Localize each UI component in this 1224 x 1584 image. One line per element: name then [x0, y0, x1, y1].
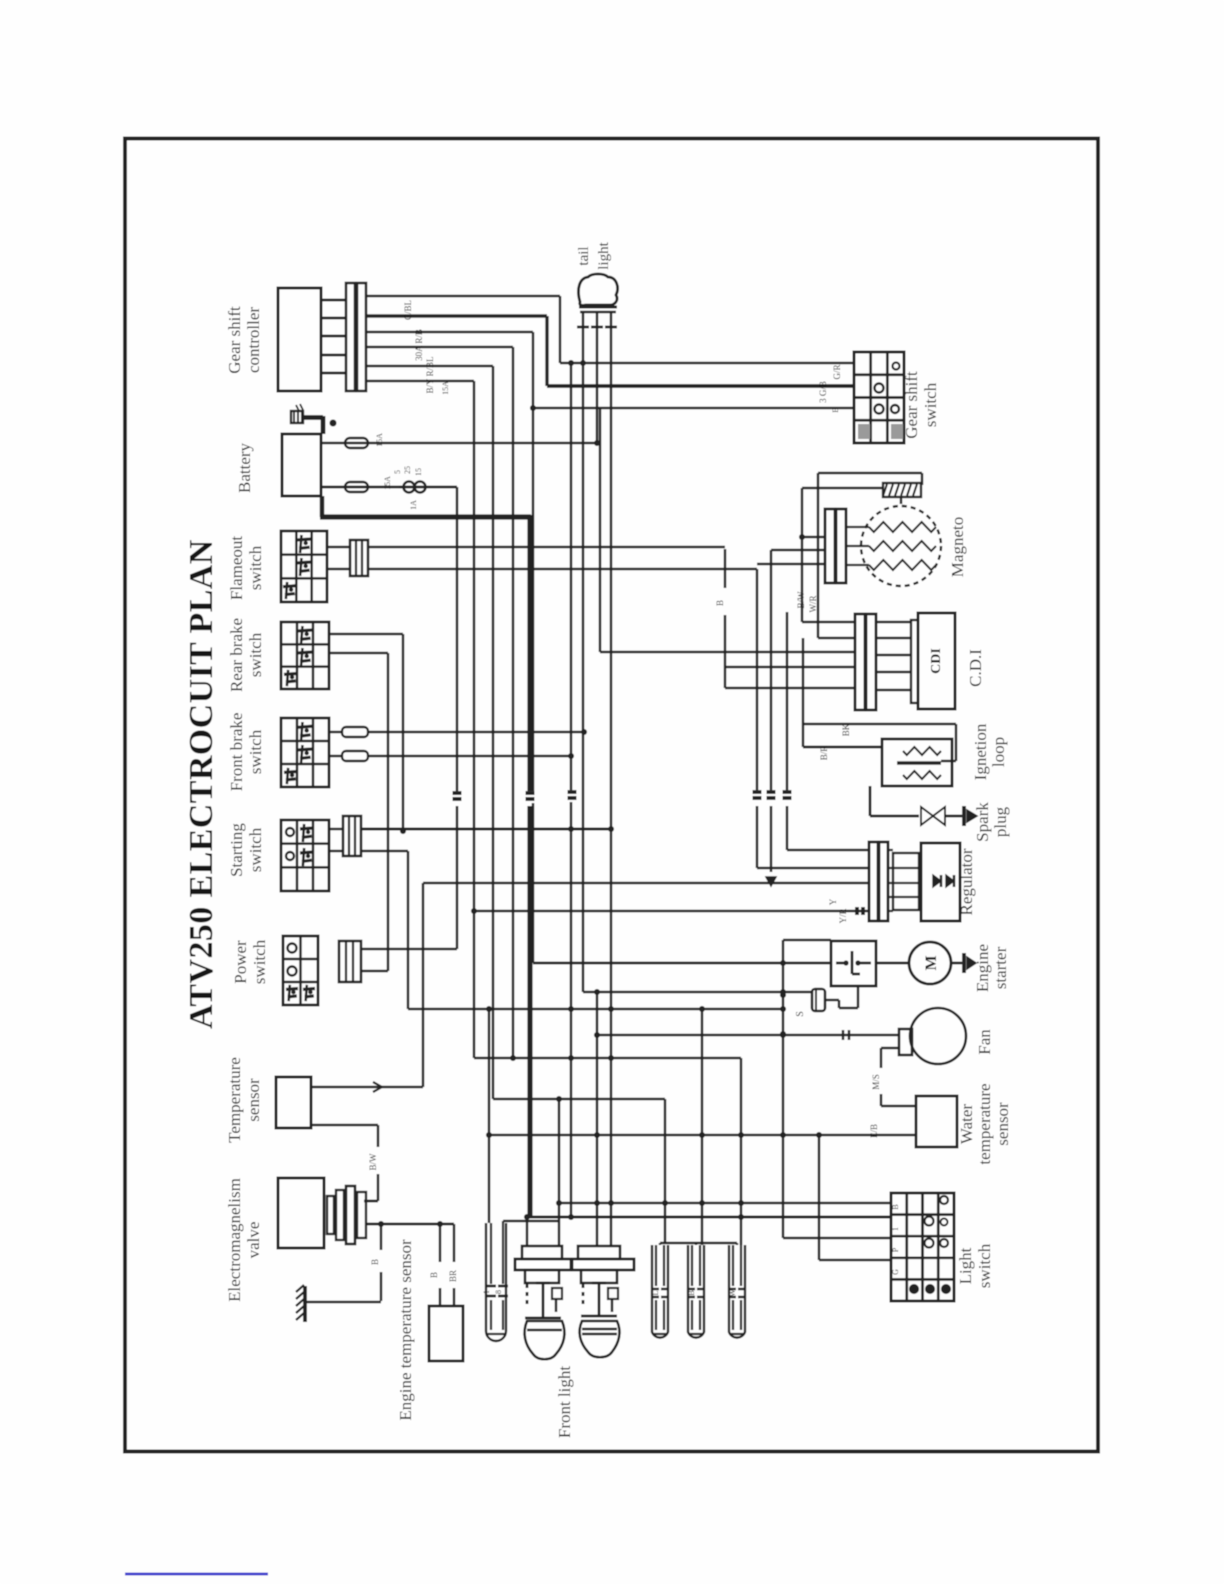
- svg-text:Gear shift: Gear shift: [225, 306, 244, 374]
- svg-text:B/Y R/BL: B/Y R/BL: [425, 357, 435, 394]
- svg-text:Gear shift: Gear shift: [902, 371, 921, 439]
- svg-text:Engine: Engine: [973, 944, 992, 992]
- svg-text:Magneto: Magneto: [948, 517, 967, 577]
- svg-text:Flameout: Flameout: [227, 536, 246, 600]
- svg-text:1A: 1A: [409, 500, 418, 510]
- svg-text:Battery: Battery: [235, 442, 254, 493]
- svg-text:Temperature: Temperature: [225, 1057, 244, 1143]
- svg-text:C.D.I: C.D.I: [966, 649, 985, 687]
- svg-text:B/W: B/W: [368, 1153, 378, 1171]
- svg-text:Electromagnelism: Electromagnelism: [225, 1178, 244, 1302]
- svg-text:Ignetion: Ignetion: [971, 723, 990, 780]
- svg-text:Spark: Spark: [973, 802, 992, 842]
- svg-text:switch: switch: [246, 632, 265, 677]
- svg-text:Y/R: Y/R: [838, 908, 848, 923]
- svg-text:temperature: temperature: [975, 1083, 994, 1164]
- svg-text:S: S: [795, 1011, 806, 1017]
- svg-text:Y: Y: [828, 898, 838, 905]
- svg-text:M/S: M/S: [871, 1074, 881, 1090]
- svg-text:Starting: Starting: [227, 823, 246, 877]
- svg-text:Power: Power: [231, 940, 250, 984]
- svg-text:Rear brake: Rear brake: [227, 618, 246, 692]
- svg-text:switch: switch: [246, 545, 265, 590]
- svg-text:ATV250 ELECTROCUIT PLAN: ATV250 ELECTROCUIT PLAN: [183, 539, 220, 1029]
- svg-text:sensor: sensor: [993, 1102, 1012, 1146]
- svg-text:8: 8: [494, 1290, 503, 1294]
- svg-text:15: 15: [414, 468, 423, 476]
- svg-text:B: B: [687, 1290, 696, 1295]
- svg-text:sensor: sensor: [244, 1078, 263, 1122]
- svg-text:B: B: [370, 1259, 380, 1265]
- svg-text:switch: switch: [246, 729, 265, 774]
- svg-text:BR: BR: [448, 1270, 458, 1282]
- svg-text:valve: valve: [244, 1222, 263, 1259]
- svg-text:switch: switch: [246, 827, 265, 872]
- svg-text:Engine temperature sensor: Engine temperature sensor: [396, 1239, 415, 1421]
- svg-text:E/B: E/B: [869, 1124, 879, 1138]
- svg-text:switch: switch: [975, 1243, 994, 1288]
- svg-text:Fan: Fan: [975, 1029, 994, 1055]
- svg-text:tail: tail: [576, 246, 592, 265]
- svg-text:3 G/B: 3 G/B: [818, 381, 828, 403]
- svg-text:switch: switch: [921, 382, 940, 427]
- svg-text:Water: Water: [957, 1104, 976, 1144]
- svg-text:15A: 15A: [383, 476, 392, 490]
- svg-text:1: 1: [482, 1290, 491, 1294]
- svg-text:C/BL: C/BL: [403, 300, 413, 320]
- svg-text:B: B: [891, 1204, 900, 1209]
- svg-text:25: 25: [403, 466, 412, 474]
- svg-text:P: P: [891, 1247, 900, 1252]
- svg-text:W/R: W/R: [808, 596, 818, 613]
- svg-text:BK: BK: [841, 723, 851, 736]
- svg-text:W: W: [728, 1289, 737, 1297]
- svg-text:1: 1: [891, 1227, 900, 1231]
- svg-text:Front brake: Front brake: [227, 713, 246, 792]
- svg-text:loop: loop: [989, 737, 1008, 767]
- svg-text:B: B: [429, 1272, 439, 1278]
- svg-text:Regulator: Regulator: [957, 848, 976, 915]
- svg-text:plug: plug: [991, 806, 1010, 837]
- svg-text:CDI: CDI: [929, 648, 944, 674]
- svg-text:B/R: B/R: [819, 746, 829, 761]
- svg-text:starter: starter: [991, 946, 1010, 989]
- svg-text:B: B: [715, 600, 725, 606]
- svg-text:15A: 15A: [441, 381, 450, 395]
- svg-text:15A: 15A: [375, 433, 384, 447]
- svg-text:light: light: [596, 241, 612, 269]
- svg-text:M: M: [923, 955, 940, 970]
- svg-text:controller: controller: [244, 307, 263, 373]
- svg-text:B: B: [831, 407, 840, 412]
- svg-text:G/R: G/R: [832, 364, 842, 379]
- svg-text:5: 5: [393, 470, 402, 474]
- svg-text:G: G: [891, 1269, 900, 1275]
- svg-text:30A R/B: 30A R/B: [414, 329, 424, 361]
- svg-text:Front light: Front light: [555, 1366, 574, 1439]
- svg-text:Light: Light: [956, 1247, 975, 1284]
- svg-text:switch: switch: [250, 939, 269, 984]
- svg-text:L: L: [651, 1290, 660, 1295]
